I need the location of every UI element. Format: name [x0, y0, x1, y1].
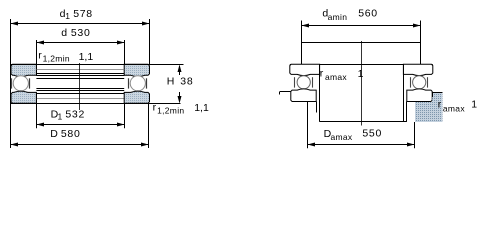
bottom housing washer left (stippled): [11, 91, 36, 103]
washer bottom line group across bore: [36, 73, 124, 75]
dimension d_amin line: [302, 25, 421, 27]
dimension D line: [11, 144, 149, 146]
cage bars left ball: [294, 77, 296, 87]
D arrow left: [11, 143, 19, 147]
dimension d1 line: [11, 23, 149, 25]
bore chamfer line top (faint): [36, 69, 124, 71]
svg-text:38: 38: [180, 76, 193, 88]
svg-text:1: 1: [65, 11, 70, 21]
svg-text:r: r: [320, 68, 324, 80]
washer bore edge ext left: [316, 102, 318, 113]
bottom washer left outline: [291, 89, 316, 102]
svg-text:amax: amax: [443, 104, 465, 114]
svg-text:1,2min: 1,2min: [157, 106, 184, 116]
svg-text:H: H: [167, 76, 175, 88]
bottom washer right outline: [407, 89, 432, 102]
svg-text:1,1: 1,1: [79, 51, 94, 63]
dimension D1 line: [36, 124, 124, 126]
abutment side right / ext: [420, 21, 422, 65]
svg-text:r: r: [38, 49, 42, 61]
top face line: [11, 64, 150, 66]
d arrow left: [37, 41, 45, 45]
svg-text:r: r: [153, 102, 157, 114]
washer top line across: [290, 64, 433, 66]
dimension D_amax line: [308, 144, 415, 146]
d_amin arrow right: [413, 24, 421, 28]
ball left (right view): [297, 76, 310, 89]
D arrow right: [141, 143, 149, 147]
svg-text:530: 530: [71, 27, 91, 39]
d_amin arrow left: [302, 24, 310, 28]
D_amax ext left: [307, 102, 309, 149]
extension line right (d1 outer): [149, 19, 151, 64]
shoulder tick left: [279, 92, 281, 95]
D_amax arrow right: [407, 143, 415, 147]
lower line group across bore: [36, 88, 124, 90]
washer bore edge ext right: [406, 102, 408, 122]
extension line left (d1/D outer): [10, 19, 12, 148]
top shaft washer left (stippled): [11, 64, 36, 76]
bottom face line: [11, 103, 150, 105]
shaft left face: [319, 64, 321, 122]
D_amax arrow left: [308, 143, 316, 147]
svg-text:amax: amax: [325, 72, 347, 82]
svg-text:D: D: [50, 128, 58, 140]
centerline left view: [79, 63, 81, 110]
svg-text:560: 560: [358, 8, 378, 20]
abutment side left / ext: [301, 21, 303, 65]
svg-text:d: d: [61, 27, 67, 39]
housing shoulder line left: [280, 91, 291, 93]
extension line d right / D1 right: [124, 40, 126, 76]
centerline right view: [361, 41, 363, 126]
svg-text:1: 1: [358, 68, 364, 80]
D1 arrow left: [37, 123, 45, 127]
svg-text:1: 1: [58, 112, 63, 122]
d1 arrow right: [142, 22, 150, 26]
svg-text:amin: amin: [328, 12, 348, 22]
svg-text:580: 580: [61, 128, 81, 140]
ball right (right view): [413, 76, 426, 89]
shaft right face: [403, 64, 405, 122]
top washer right outline: [403, 64, 432, 75]
svg-text:550: 550: [362, 128, 382, 140]
svg-text:1: 1: [471, 99, 477, 111]
D_amax ext right: [414, 122, 416, 148]
svg-text:r: r: [438, 99, 442, 111]
H down arrow: [179, 92, 181, 101]
ball left: [13, 76, 28, 91]
d arrow right: [117, 41, 125, 45]
svg-text:amax: amax: [331, 132, 353, 142]
dimension d line: [36, 42, 124, 44]
abutment top line: [302, 42, 421, 44]
top washer left outline: [290, 64, 320, 75]
extension line d left / D1 left: [36, 40, 38, 76]
extension line right lower (D outer): [148, 103, 150, 148]
d1 arrow left: [11, 22, 19, 26]
H top extension: [150, 64, 184, 66]
housing block right (stippled): [415, 93, 443, 123]
svg-text:578: 578: [73, 8, 93, 20]
H up arrow: [179, 66, 181, 75]
cage bars left ball: [11, 78, 13, 88]
cage bars right ball: [128, 78, 130, 88]
housing bore edge right: [432, 92, 434, 97]
svg-text:532: 532: [65, 108, 85, 120]
shaft bottom: [320, 121, 407, 123]
D1 arrow right: [117, 123, 125, 127]
svg-text:1,1: 1,1: [194, 102, 209, 114]
top shaft washer right (stippled): [124, 64, 149, 76]
bore chamfer line bottom (faint): [36, 98, 124, 100]
bottom housing washer right (stippled): [124, 91, 149, 103]
H bottom extension: [150, 103, 181, 105]
cage bars right ball: [410, 77, 412, 87]
ball right: [130, 76, 145, 91]
housing shoulder line right: [432, 92, 443, 94]
svg-text:1,2min: 1,2min: [43, 53, 70, 63]
